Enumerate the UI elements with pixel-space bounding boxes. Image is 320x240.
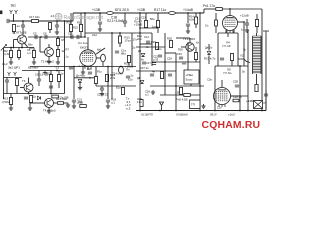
svg-text:Зв1: Зв1 — [11, 4, 17, 8]
wire R18 down — [128, 63, 130, 67]
wire V3 side — [231, 95, 249, 97]
wire V1 grid — [87, 37, 89, 50]
wire V1 plate link — [96, 48, 105, 54]
svg-text:Рп1 17а: Рп1 17а — [203, 4, 215, 8]
resistor R22b — [94, 77, 97, 84]
node brail 160 — [159, 110, 161, 112]
svg-text:+1,3 В: +1,3 В — [77, 64, 86, 68]
wire osc bus — [111, 33, 113, 99]
tube V3 Л5 ГУ-50 — [214, 88, 231, 105]
wire R33 down — [231, 61, 233, 67]
svg-text:С12: С12 — [92, 33, 97, 37]
wire top rail — [73, 12, 204, 14]
wire T1 collector — [25, 43, 29, 47]
ground T4 — [47, 109, 51, 113]
wire relay bottom — [190, 84, 192, 86]
resistor R16 — [58, 102, 64, 105]
capacitor C15 — [98, 22, 102, 24]
wire relay top — [187, 66, 189, 70]
wire T2 base up — [39, 37, 41, 52]
wire R10 down — [70, 32, 72, 38]
capacitor C37 — [126, 76, 130, 78]
wire HT top — [204, 8, 216, 10]
svg-text:2о: 2о — [33, 95, 36, 99]
capacitor C8c — [49, 86, 53, 88]
node tube anode — [229, 8, 231, 10]
svg-text:Зв2 ШР1: Зв2 ШР1 — [8, 66, 20, 70]
node h66 c — [120, 66, 122, 68]
capacitor C7 — [5, 80, 9, 82]
wire tube V2 anode — [229, 9, 231, 16]
svg-text:2оо: 2оо — [157, 47, 162, 51]
wire C8b down — [38, 81, 40, 86]
resistor R17a — [48, 23, 51, 30]
svg-text:С6: С6 — [43, 32, 47, 36]
crystal Кв1 — [101, 54, 106, 62]
svg-text:С28: С28 — [233, 80, 238, 84]
resistor R21 — [216, 8, 223, 11]
node h66 right — [239, 65, 241, 67]
svg-text:4,3к: 4,3к — [4, 52, 10, 56]
resistor R30 — [255, 85, 258, 92]
wire R34 top — [145, 13, 147, 21]
svg-text:С17 16о: С17 16о — [29, 15, 40, 19]
watermark globe logo — [55, 13, 62, 20]
resistor R29 — [140, 100, 143, 107]
svg-text:о,1: о,1 — [27, 51, 31, 55]
ground R16 — [66, 103, 70, 107]
wire far right bus — [265, 35, 267, 111]
potentiometer arrow R2 — [1, 45, 7, 51]
capacitor C36 — [100, 88, 104, 90]
wire v96 — [95, 67, 97, 87]
wire R1 down — [13, 32, 15, 35]
wire T2 emitter — [48, 57, 50, 60]
wire h93 rail — [4, 93, 65, 95]
wire mid h33 — [85, 32, 152, 34]
ground tap h70 — [43, 71, 47, 74]
crystal Кв2 — [119, 66, 124, 74]
resistor R11 — [79, 25, 82, 32]
node h62 — [164, 61, 166, 63]
ground R19 — [9, 106, 13, 110]
diode Дп — [78, 79, 82, 82]
node R10 row — [70, 36, 72, 38]
wire V3 top — [221, 80, 223, 87]
capacitor C29 — [158, 55, 162, 57]
capacitor C3 — [55, 25, 59, 27]
wire V3 grid side — [231, 95, 240, 97]
transistor T3 — [24, 83, 33, 92]
wire T1 emitter — [21, 44, 23, 48]
wire R16 out — [64, 102, 69, 104]
wire C18 top — [124, 13, 126, 21]
svg-text:R7: R7 — [66, 48, 70, 52]
resistor R10 — [69, 25, 72, 32]
node rail 85 — [84, 12, 86, 14]
node C2 top — [22, 20, 24, 22]
svg-text:С17: С17 — [146, 61, 151, 65]
wire R13 top — [119, 33, 121, 36]
transistor T6 — [186, 43, 194, 51]
svg-text:Х1 БИТ5: Х1 БИТ5 — [140, 113, 153, 117]
node brail 262 — [261, 110, 263, 112]
resistor R13 — [118, 36, 121, 43]
wire top-left rail — [9, 20, 73, 22]
wire h53 link — [165, 52, 176, 54]
wire bias — [30, 102, 45, 104]
wire v140 — [139, 13, 141, 111]
resistor R8 — [15, 79, 18, 86]
resistor R6 — [56, 50, 59, 57]
node rail 188 — [187, 12, 189, 14]
capacitor C20 — [186, 24, 190, 26]
wire R14 down — [195, 24, 197, 28]
svg-text:1о: 1о — [241, 28, 244, 32]
capacitor C10 — [115, 51, 119, 53]
ground Дп — [78, 86, 82, 90]
node brail 240 — [239, 110, 241, 112]
svg-text:1о: 1о — [61, 72, 64, 76]
resistor R15 — [155, 43, 158, 50]
capacitor C20b — [88, 72, 92, 74]
wire R20b down — [50, 82, 52, 94]
wire R2 top — [10, 48, 12, 51]
node h66 a — [73, 66, 75, 68]
wire R9 top — [58, 71, 60, 75]
svg-text:R17 11о: R17 11о — [154, 8, 166, 12]
wire Дп down — [79, 83, 81, 86]
wire v218 — [217, 33, 219, 66]
svg-text:2оо: 2оо — [137, 37, 142, 41]
wire v248 — [247, 30, 249, 111]
capacitor C34 — [142, 62, 146, 64]
fuse Пр1 — [107, 12, 114, 15]
node R11 row — [80, 36, 82, 38]
wire mid vertical bus — [64, 21, 66, 94]
wire C2 to T1 — [22, 27, 24, 35]
wire h28 link — [140, 27, 158, 29]
wire v200 — [199, 13, 201, 111]
capacitor C6 — [45, 35, 47, 39]
ground T2 — [47, 60, 51, 64]
svg-text:ГУ-19: ГУ-19 — [223, 44, 231, 48]
diode Д3 — [207, 51, 211, 54]
resistor R4 — [32, 51, 35, 58]
svg-text:о,33: о,33 — [153, 58, 159, 62]
wire R13a down — [157, 28, 159, 34]
capacitor C28 — [235, 85, 239, 87]
svg-text:Б1о: Б1о — [116, 86, 121, 90]
wire h47 link — [136, 46, 165, 48]
ground C30 — [245, 28, 249, 32]
wire v100 stub — [99, 13, 101, 21]
wire V2 out — [238, 21, 245, 23]
svg-text:-13: -13 — [50, 14, 54, 18]
wire C36 down — [101, 90, 103, 92]
wire R17a down — [49, 30, 51, 34]
transistor T2 — [45, 48, 54, 57]
transistor T4 — [45, 99, 54, 108]
svg-text:С5: С5 — [33, 32, 37, 36]
svg-text:КВ 68о+: КВ 68о+ — [28, 66, 39, 70]
ground R4 — [32, 60, 36, 64]
wire R13a top — [157, 13, 159, 21]
wire R36 top — [215, 13, 217, 20]
capacitor C30 — [245, 23, 249, 25]
svg-text:1о: 1о — [17, 24, 21, 28]
svg-text:о,1: о,1 — [145, 93, 149, 97]
node h93 a — [28, 93, 30, 95]
wire Д3 up — [208, 44, 210, 51]
wire v188 — [187, 42, 189, 66]
wire R13 down — [119, 43, 121, 47]
node h86 b — [199, 85, 201, 87]
node rail-left A — [13, 47, 15, 49]
wire R32 down — [195, 60, 197, 63]
svg-text:R1б В2о: R1б В2о — [56, 97, 67, 101]
wire C2 top — [22, 21, 24, 25]
resistor R27 — [184, 94, 191, 97]
svg-text:5б,3°: 5б,3° — [210, 113, 218, 117]
svg-text:RadioStorage.net: RadioStorage.net — [64, 15, 104, 21]
wire R36 down — [215, 26, 217, 33]
wire v215 — [214, 66, 216, 111]
svg-text:С14: С14 — [144, 35, 149, 39]
svg-text:С2о: С2о — [87, 67, 92, 71]
resistor R7 on rail — [32, 20, 39, 23]
ground bias — [28, 106, 32, 110]
speaker jack Y — [159, 102, 164, 111]
wire right bus — [261, 9, 263, 111]
capacitor C32 — [152, 63, 156, 65]
capacitor C31 — [264, 94, 268, 96]
svg-text:17оо: 17оо — [125, 39, 132, 43]
wire v240 — [239, 66, 241, 111]
wire R4 gnd — [33, 58, 35, 61]
node rail-left B — [21, 47, 23, 49]
relay Рп3 box — [254, 101, 263, 109]
svg-text:Сп 1оо: Сп 1оо — [78, 41, 88, 45]
relay box Рл1 — [184, 70, 199, 84]
tube V1 6Ж2П — [80, 50, 96, 66]
resistor R19 — [9, 98, 12, 105]
svg-text:Сп: Сп — [205, 24, 209, 28]
wire T2 base — [40, 51, 45, 53]
wire T4 emitter — [48, 108, 50, 110]
capacitor C16 — [179, 57, 183, 59]
resistor R3 — [17, 51, 20, 58]
svg-text:+14оВ: +14оВ — [183, 8, 194, 12]
svg-text:+13В: +13В — [92, 8, 101, 12]
wire T1 base down — [13, 40, 15, 48]
wire tube V2 pin a — [225, 30, 227, 33]
wire h77 — [4, 77, 23, 79]
svg-text:Х3 БИо5: Х3 БИо5 — [175, 113, 188, 117]
wire v152 — [151, 33, 153, 66]
tube V2 Л4 ГУ-19 — [223, 16, 238, 31]
wire h38 link — [176, 37, 190, 39]
resistor R34 — [144, 21, 147, 28]
wire C20 down — [187, 26, 189, 29]
resistor R33 — [230, 54, 233, 61]
wire V1 cathode — [87, 66, 89, 70]
svg-text:+15пБ: +15пБ — [134, 23, 142, 27]
wire C21 gnd — [73, 102, 75, 104]
wire rail drop 85 — [84, 13, 86, 37]
capacitor C21 — [72, 100, 76, 102]
resistor R22 — [255, 20, 258, 27]
svg-text:Рп: Рп — [264, 101, 268, 105]
transformer Тр1 winding — [253, 36, 262, 73]
svg-text:CQHAM.RU: CQHAM.RU — [202, 120, 261, 131]
mic jack prong A — [8, 72, 11, 76]
svg-text:12о: 12о — [217, 106, 222, 110]
wire V1 side — [96, 57, 100, 59]
svg-text:Х2: Х2 — [240, 54, 244, 58]
svg-text:+НЕо: +НЕо — [186, 73, 194, 77]
svg-text:R2б: R2б — [178, 48, 183, 52]
wire h78 mid — [74, 77, 96, 79]
node rail57 — [56, 20, 58, 22]
wire C15 down — [99, 24, 101, 27]
wire C24 gnd — [107, 102, 109, 104]
svg-text:-о,5: -о,5 — [126, 106, 131, 110]
wire X2 curve — [238, 59, 250, 63]
svg-text:С2в: С2в — [207, 78, 212, 82]
svg-text:БП1 2б,5: БП1 2б,5 — [115, 8, 129, 12]
wire v74 — [73, 66, 75, 99]
wire coil out bottom — [256, 74, 258, 84]
svg-text:Тр: Тр — [243, 48, 246, 52]
wire rail step — [72, 13, 74, 21]
wire h86-mid — [96, 85, 136, 87]
ground R2 — [9, 60, 13, 64]
diode Д1 — [37, 96, 40, 100]
wire C7 down — [6, 82, 8, 94]
node h86 a — [175, 85, 177, 87]
wire Д3 down — [208, 56, 210, 65]
wire T6 base — [181, 46, 186, 48]
svg-text:о,1Б: о,1Б — [77, 101, 83, 105]
svg-text:Кл: Кл — [196, 41, 200, 45]
transformer box ТП1 — [190, 100, 201, 109]
antenna jack Зв1 prong A — [10, 10, 13, 14]
wire h66 mid — [65, 66, 137, 68]
svg-text:R15: R15 — [73, 26, 78, 30]
wire v108 — [107, 66, 109, 99]
resistor R9 — [57, 75, 60, 82]
node rail 140 — [139, 12, 141, 14]
wire coil feed top — [256, 33, 258, 36]
capacitor C35 — [182, 62, 186, 64]
wire R10 top — [70, 13, 72, 25]
svg-text:С14 о,47: С14 о,47 — [112, 72, 123, 76]
wire R25 top — [161, 70, 163, 73]
svg-text:П2,1+4,5пБ: П2,1+4,5пБ — [107, 19, 124, 23]
svg-text:R11: R11 — [77, 21, 82, 25]
wire R22 down — [256, 27, 258, 34]
svg-text:3ооо: 3ооо — [186, 78, 193, 82]
ground C3 — [55, 30, 59, 34]
node h78 — [89, 77, 91, 79]
node rail R2 — [10, 47, 12, 49]
wire C36 top — [101, 86, 103, 88]
wire R8 top — [16, 78, 18, 79]
node h66 b — [107, 66, 109, 68]
wire R19 top — [10, 94, 12, 98]
resistor R14 — [194, 17, 197, 24]
resistor R25 — [160, 72, 163, 79]
wire v176 ext — [175, 95, 177, 111]
wire R11 down — [80, 32, 82, 38]
capacitor C23 — [168, 74, 172, 76]
wire h86 — [150, 85, 204, 87]
svg-text:-13: -13 — [55, 66, 59, 70]
node brail 140 — [139, 110, 141, 112]
resistor R13a — [156, 21, 159, 28]
wire T3 down — [28, 92, 30, 94]
wire C30 gnd — [246, 25, 248, 28]
wire C3 down — [56, 27, 58, 30]
node h28 — [139, 27, 141, 29]
wire left bus — [3, 48, 5, 94]
capacitor C18 — [123, 21, 127, 23]
scan mark left edge — [0, 11, 2, 15]
capacitor C9 — [24, 97, 28, 99]
wire R5-R6 — [57, 46, 59, 50]
wire antenna down — [13, 14, 15, 21]
diode Д2 — [141, 53, 145, 56]
svg-text:о,1: о,1 — [111, 101, 115, 105]
wire v132 — [131, 33, 133, 66]
resistor R18 — [127, 56, 130, 63]
wire T6 up — [189, 38, 191, 43]
wire T2 collector — [48, 44, 50, 48]
svg-text:R28: R28 — [167, 37, 172, 41]
node rail 200 — [199, 12, 201, 14]
wire bottom rail — [136, 110, 266, 112]
capacitor C12 — [69, 67, 73, 69]
resistor R28 — [169, 41, 172, 48]
svg-text:ТП: ТП — [191, 103, 195, 107]
wire rail mid-left — [4, 47, 31, 49]
svg-text:Пп: Пп — [126, 68, 130, 72]
diode Д4 — [140, 80, 144, 83]
capacitor C1 — [7, 19, 9, 23]
wire v244 — [243, 22, 245, 66]
wire C3 top — [56, 21, 58, 25]
fuse Пр2 — [169, 12, 176, 15]
capacitor C2 — [21, 25, 25, 27]
wire C7 top — [6, 78, 8, 81]
wire HT corner — [245, 8, 262, 10]
wire R4 top — [33, 48, 35, 51]
wire C8b top — [38, 71, 40, 80]
wire T3 base — [20, 87, 24, 89]
node v244 — [243, 21, 245, 23]
ground C21 — [72, 104, 76, 108]
wire h70 — [22, 70, 65, 72]
node mid h33 a — [111, 32, 113, 34]
wire R4 rail — [30, 47, 34, 49]
svg-text:Дп 4оо: Дп 4оо — [76, 74, 85, 78]
node h70 — [56, 70, 58, 72]
wire left bus tail — [3, 94, 5, 100]
node row A — [40, 36, 42, 38]
wire h33 right — [218, 32, 238, 34]
wire R2 bottom — [10, 58, 12, 61]
